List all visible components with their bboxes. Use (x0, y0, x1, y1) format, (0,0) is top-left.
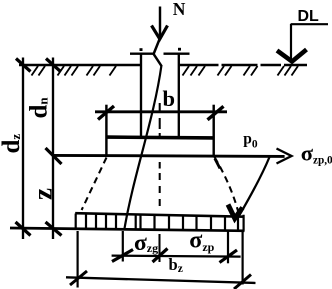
center axis dash-dot line (158, 103, 160, 262)
sigma-zp label (189, 228, 214, 254)
svg-text:bz: bz (169, 255, 183, 275)
footing right side (212, 105, 214, 157)
sigma dim tick 3 (220, 250, 238, 263)
b_z dimension line (66, 277, 256, 283)
N label (173, 0, 186, 19)
b_z tick right (234, 275, 251, 289)
p0 axis arrowhead (277, 149, 292, 164)
tick v2 ground (46, 59, 61, 72)
b_z tick left (70, 271, 87, 285)
dashed spread line right (215, 157, 239, 211)
footing top / b dimension line (95, 110, 227, 113)
p0 label (243, 130, 258, 150)
left dim vertical 1 (22, 58, 24, 240)
tick v1 slab (16, 222, 31, 236)
load N arrow (152, 7, 168, 40)
d_z label (0, 134, 25, 154)
column top dots (140, 48, 182, 51)
svg-text:b: b (163, 86, 176, 111)
b_z label (169, 255, 183, 275)
slab top line (75, 213, 244, 217)
tick v2 base (46, 148, 62, 164)
sigma dimension line (112, 256, 241, 257)
footing base line / p0 axis (53, 155, 285, 156)
footing left side (105, 105, 107, 156)
svg-text:dn: dn (26, 97, 53, 119)
sigma dim tick 1 (112, 250, 133, 262)
sigma-zg slant line (125, 65, 162, 229)
sigma dim extension left (122, 231, 124, 262)
d_n label (26, 97, 53, 119)
column right edge (178, 54, 180, 138)
svg-text:dz: dz (0, 134, 25, 154)
slab bottom line (10, 228, 245, 231)
svg-text:z: z (28, 188, 58, 200)
stress curve arrowhead (228, 205, 243, 219)
b_z extension left (76, 231, 78, 288)
z label (28, 188, 58, 200)
sigma dim extension right (227, 232, 229, 264)
footing step ledge line (106, 135, 213, 139)
sigma-zp,0 label (301, 140, 332, 166)
svg-text:σzp,0: σzp,0 (301, 140, 332, 166)
ground hatching (32, 66, 299, 76)
svg-text:N: N (173, 0, 186, 19)
column top line (130, 53, 190, 55)
ground line (19, 64, 307, 67)
left dim vertical 2 (52, 58, 54, 240)
column left edge (140, 54, 142, 138)
b dim tick right (208, 106, 224, 120)
svg-text:DL: DL (298, 8, 320, 25)
sigma dim tick 2 (153, 249, 168, 263)
tick v2 slab (46, 222, 62, 236)
svg-text:p0: p0 (243, 130, 258, 150)
slab cell dividers (76, 214, 244, 231)
DL label (298, 8, 320, 25)
b label (163, 86, 176, 111)
stress curve (240, 157, 270, 215)
svg-text:σzg: σzg (134, 230, 158, 256)
dashed spread line left (82, 158, 107, 211)
DL datum symbol (277, 24, 328, 62)
load line zigzag (154, 39, 162, 67)
tick v1 ground (16, 59, 31, 72)
sigma-zg label (134, 230, 158, 256)
b dim tick left (98, 106, 114, 120)
b_z extension right (242, 231, 244, 285)
